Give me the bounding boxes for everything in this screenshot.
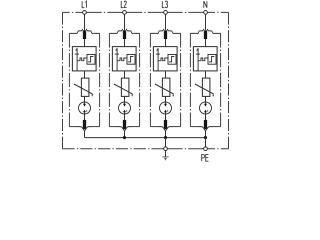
wire pin to disconnector, module 1 bbox=[84, 39, 86, 47]
junction node module L3 on PE bus bbox=[164, 136, 167, 139]
junction node module N on PE bus bbox=[204, 136, 207, 139]
varistor RV2 bbox=[114, 78, 132, 96]
terminal L2 bbox=[123, 11, 127, 15]
terminal L1 bbox=[83, 11, 87, 15]
terminal pin top, module 3 bbox=[164, 30, 167, 39]
wire N to module 4 bbox=[205, 14, 207, 30]
wire L1 to module 1 bbox=[84, 14, 86, 30]
enclosure border left (dash-dot) bbox=[62, 12, 64, 148]
wire pin to disconnector, module 4 bbox=[205, 39, 207, 47]
spark gap F3 (gas discharge tube) bbox=[160, 102, 172, 114]
terminal N bbox=[204, 11, 208, 15]
label L1 bbox=[82, 1, 84, 8]
enclosure border bottom (dash-dot) bbox=[63, 148, 229, 150]
junction node module L2 on PE bus bbox=[123, 136, 126, 139]
wire varistor to spark gap, module 4 bbox=[205, 96, 207, 102]
wire spark gap to bottom pin, module 1 bbox=[84, 114, 86, 120]
wire bus to PE terminal bbox=[205, 138, 207, 147]
terminal pin bottom, module 1 bbox=[83, 120, 86, 129]
spark gap F4 (gas discharge tube) bbox=[200, 102, 212, 114]
label L3 bbox=[162, 1, 164, 8]
module 3 protection path box (dash-dot) bbox=[150, 33, 180, 126]
wire varistor to spark gap, module 2 bbox=[124, 96, 126, 102]
plug-in socket contact bottom, module 1 bbox=[77, 127, 92, 131]
spark gap F2 (gas discharge tube) bbox=[119, 102, 131, 114]
label L2 bbox=[121, 1, 123, 8]
wire L3 to module 3 bbox=[165, 14, 167, 30]
plug-in socket contact top, module 3 bbox=[150, 29, 180, 34]
terminal pin top, module 1 bbox=[83, 30, 86, 39]
plug-in socket contact bottom, module 4 bbox=[198, 127, 213, 131]
plug-in socket contact top, module 4 bbox=[190, 29, 220, 34]
label PE bbox=[202, 155, 205, 162]
wire varistor to spark gap, module 1 bbox=[84, 96, 86, 102]
wire module 4 to PE bus bbox=[205, 130, 207, 137]
enclosure border right (dash-dot) bbox=[228, 12, 230, 148]
wire spark gap to bottom pin, module 3 bbox=[165, 114, 167, 120]
terminal pin top, module 2 bbox=[123, 30, 126, 39]
PE bus wire bbox=[85, 137, 206, 139]
wire module 1 to PE bus bbox=[84, 130, 86, 137]
wire disconnector to varistor, module 4 bbox=[205, 71, 207, 78]
wire spark gap to bottom pin, module 4 bbox=[205, 114, 207, 120]
plug-in socket contact top, module 1 bbox=[69, 29, 99, 34]
plug-in socket contact top, module 2 bbox=[109, 29, 139, 34]
terminal pin top, module 4 bbox=[204, 30, 207, 39]
varistor RV3 bbox=[155, 78, 173, 96]
wire module 3 to PE bus bbox=[165, 130, 167, 137]
thermal disconnector with monitoring U3 bbox=[153, 47, 177, 71]
module 4 protection path box (dash-dot) bbox=[190, 33, 220, 126]
wire spark gap to bottom pin, module 2 bbox=[124, 114, 126, 120]
terminal L3 bbox=[164, 11, 168, 15]
terminal pin bottom, module 3 bbox=[164, 120, 167, 129]
plug-in socket contact bottom, module 3 bbox=[158, 127, 173, 131]
terminal pin bottom, module 4 bbox=[204, 120, 207, 129]
wire bus to earth terminal bbox=[165, 138, 167, 147]
thermal disconnector with monitoring U1 bbox=[72, 47, 96, 71]
wire varistor to spark gap, module 3 bbox=[165, 96, 167, 102]
varistor RV1 bbox=[74, 78, 92, 96]
ground symbol bbox=[162, 151, 168, 161]
module 1 protection path box (dash-dot) bbox=[69, 33, 99, 126]
spark gap F1 (gas discharge tube) bbox=[79, 102, 91, 114]
label N bbox=[204, 1, 207, 8]
module 2 protection path box (dash-dot) bbox=[109, 33, 139, 126]
wire module 2 to PE bus bbox=[124, 130, 126, 137]
thermal disconnector with monitoring U4 bbox=[193, 47, 217, 71]
plug-in socket contact bottom, module 2 bbox=[117, 127, 132, 131]
wire disconnector to varistor, module 1 bbox=[84, 71, 86, 78]
PE terminal bbox=[204, 147, 208, 151]
thermal disconnector with monitoring U2 bbox=[112, 47, 136, 71]
enclosure border top (dash-dot) bbox=[63, 11, 229, 13]
wire disconnector to varistor, module 3 bbox=[165, 71, 167, 78]
wire pin to disconnector, module 2 bbox=[124, 39, 126, 47]
earth terminal bbox=[164, 147, 168, 151]
wire L2 to module 2 bbox=[124, 14, 126, 30]
varistor RV4 bbox=[195, 78, 213, 96]
wire disconnector to varistor, module 2 bbox=[124, 71, 126, 78]
wire pin to disconnector, module 3 bbox=[165, 39, 167, 47]
terminal pin bottom, module 2 bbox=[123, 120, 126, 129]
